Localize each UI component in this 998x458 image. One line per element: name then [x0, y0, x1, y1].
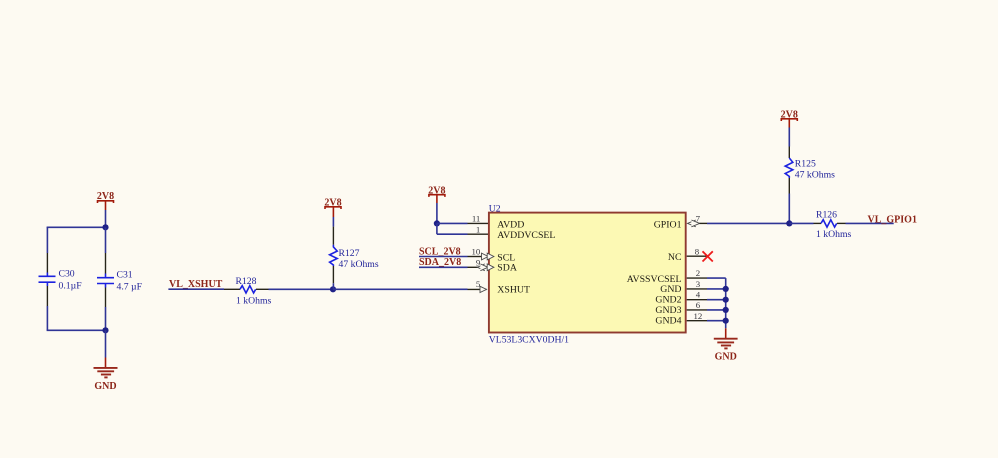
- svg-text:GPIO1: GPIO1: [654, 219, 682, 230]
- svg-text:XSHUT: XSHUT: [497, 285, 530, 296]
- svg-text:AVDDVCSEL: AVDDVCSEL: [497, 230, 555, 241]
- svg-text:GND: GND: [660, 284, 681, 295]
- svg-text:R126: R126: [816, 209, 837, 220]
- svg-text:R125: R125: [795, 158, 816, 169]
- svg-text:1 kOhms: 1 kOhms: [236, 295, 271, 306]
- svg-text:0.1µF: 0.1µF: [59, 281, 83, 292]
- svg-text:GND3: GND3: [655, 305, 681, 316]
- svg-text:6: 6: [696, 300, 701, 310]
- svg-text:VL_GPIO1: VL_GPIO1: [868, 215, 917, 226]
- svg-text:8: 8: [695, 246, 700, 256]
- svg-text:4: 4: [696, 290, 701, 300]
- svg-text:AVDD: AVDD: [497, 219, 524, 230]
- svg-text:R127: R127: [339, 248, 360, 259]
- svg-text:1: 1: [476, 224, 480, 234]
- svg-text:47 kOhms: 47 kOhms: [339, 259, 379, 270]
- svg-text:C31: C31: [117, 270, 133, 281]
- svg-text:GND4: GND4: [655, 315, 681, 326]
- svg-text:11: 11: [472, 214, 480, 224]
- svg-text:SDA: SDA: [497, 263, 517, 274]
- svg-text:VL53L3CXV0DH/1: VL53L3CXV0DH/1: [489, 335, 569, 346]
- svg-text:NC: NC: [668, 252, 682, 263]
- svg-text:GND: GND: [715, 351, 737, 362]
- svg-text:4.7 µF: 4.7 µF: [117, 282, 143, 293]
- svg-text:7: 7: [696, 214, 701, 224]
- svg-text:SCL_2V8: SCL_2V8: [419, 246, 461, 257]
- svg-text:C30: C30: [59, 269, 75, 280]
- svg-text:R128: R128: [236, 276, 257, 287]
- svg-text:3: 3: [696, 279, 701, 289]
- svg-text:1 kOhms: 1 kOhms: [816, 229, 851, 240]
- svg-text:12: 12: [694, 311, 703, 321]
- svg-text:VL_XSHUT: VL_XSHUT: [169, 279, 223, 290]
- svg-text:2: 2: [696, 268, 700, 278]
- svg-text:47 kOhms: 47 kOhms: [795, 170, 835, 181]
- svg-text:SDA_2V8: SDA_2V8: [419, 257, 461, 268]
- svg-text:10: 10: [472, 247, 481, 257]
- svg-text:GND: GND: [94, 381, 116, 392]
- svg-text:U2: U2: [489, 204, 501, 215]
